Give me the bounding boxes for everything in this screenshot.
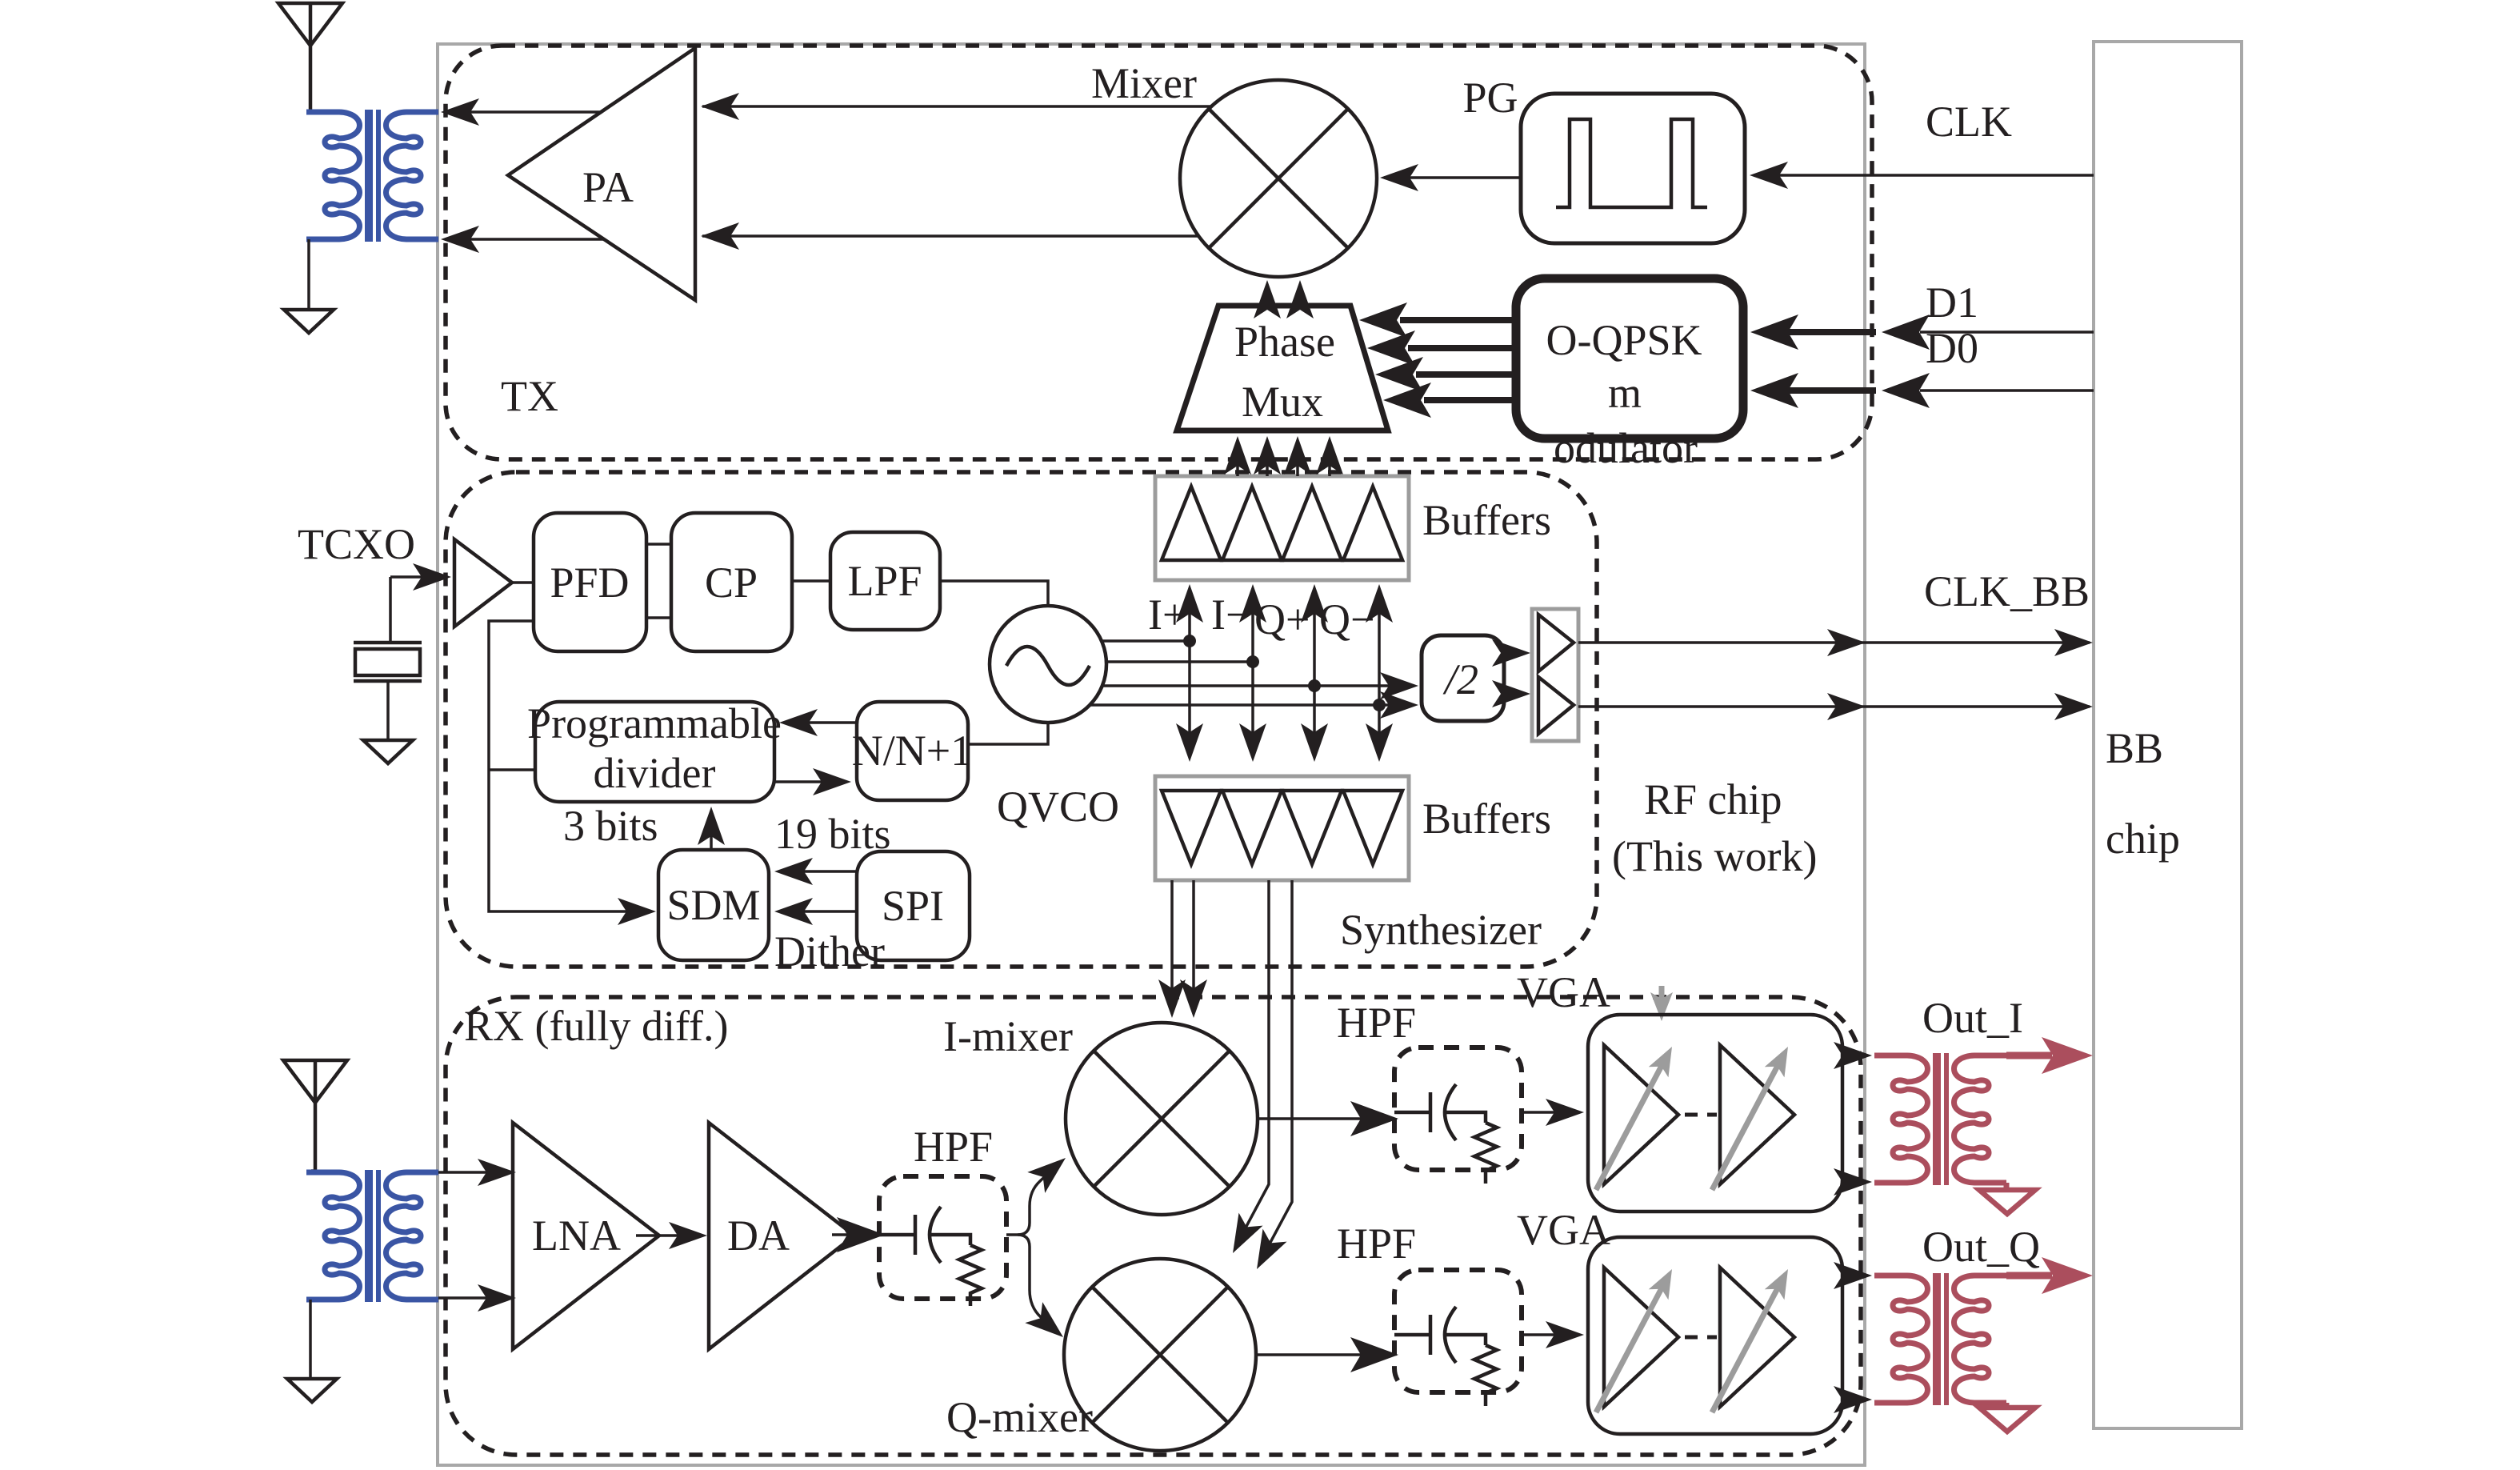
HPF3 to VGA2 wire — [1522, 1333, 1576, 1336]
CLK_BB arrowhead end 2 — [2054, 693, 2093, 720]
HPF1 resistor R1 — [959, 1245, 982, 1306]
TX ground wire — [307, 239, 310, 310]
svg-text:Mixer: Mixer — [1091, 59, 1197, 107]
Q plus arrow up — [1301, 584, 1328, 623]
top buffer triangle 1 — [1162, 487, 1221, 560]
arrowhead into TCXO buffer — [413, 563, 451, 591]
TX balun transformer — [306, 110, 438, 242]
arrowhead LO Q-mixer 1 — [1221, 1213, 1263, 1260]
Synthesizer block dashed border — [446, 472, 1597, 967]
HPF2 capacitor plate 2 — [1445, 1084, 1456, 1140]
svg-text:D1: D1 — [1926, 278, 1978, 326]
Out_Q ground wire — [2004, 1403, 2010, 1408]
VGA1 dash link — [1685, 1113, 1717, 1117]
N/N+1 divider box — [857, 702, 968, 800]
div2 output wire 1 — [1504, 651, 1524, 655]
svg-text:divider: divider — [594, 749, 716, 797]
modulator bus tick 4 — [1513, 391, 1519, 410]
arrowhead into I-mixer — [1027, 1148, 1074, 1193]
QVCO output wire I plus — [1102, 639, 1190, 643]
wire phase mux to mixer 1 — [1266, 288, 1269, 306]
svg-text:Q−: Q− — [1319, 595, 1374, 643]
svg-text:Q+: Q+ — [1254, 595, 1310, 643]
D1 arrowhead into modulator — [1750, 314, 1798, 350]
HPF3 dashed box — [1394, 1270, 1522, 1392]
top buffer triangle 2 — [1222, 487, 1282, 560]
Q-mixer output wire — [1256, 1353, 1386, 1356]
clk buffer pair box — [1532, 609, 1578, 741]
SPI to SDM wire 2 — [781, 910, 857, 913]
LO wire to I-mixer 2 — [1192, 880, 1195, 1010]
svg-text:RF chip: RF chip — [1644, 775, 1782, 823]
crystal ground wire — [386, 681, 390, 740]
svg-text:Synthesizer: Synthesizer — [1340, 906, 1542, 954]
arrowhead into mixer 2 — [1286, 280, 1314, 318]
RX block dashed border — [446, 997, 1861, 1455]
RX balun transformer — [306, 1170, 438, 1302]
I minus arrow up — [1239, 584, 1266, 623]
LNA to DA wire — [636, 1234, 701, 1237]
svg-text:Programmable: Programmable — [527, 699, 782, 747]
arrowhead into balun top — [441, 98, 479, 126]
modulator bus tick 2 — [1513, 338, 1519, 358]
LO wire to Q-mixer 2 — [1262, 880, 1292, 1259]
BB chip outline box — [2094, 42, 2242, 1428]
bottom buffer triangle 4 — [1343, 791, 1402, 864]
svg-text:HPF: HPF — [1337, 1220, 1416, 1268]
svg-text:m: m — [1608, 369, 1642, 417]
I plus arrow up — [1176, 584, 1203, 623]
svg-text:SPI: SPI — [882, 882, 944, 930]
I minus vertical line — [1251, 596, 1254, 752]
DA amplifier — [709, 1123, 854, 1349]
RX antenna-transformer wire — [311, 1169, 315, 1172]
CLK_BB wire 1 — [1578, 641, 2090, 644]
buffers to phase mux wire 1 — [1236, 447, 1239, 476]
wire PG to mixer — [1384, 176, 1521, 179]
crystal X1 top plate — [354, 641, 422, 645]
svg-text:3 bits: 3 bits — [563, 802, 658, 850]
HPF2 wire to resistor — [1446, 1112, 1486, 1123]
HPF1 input wire — [879, 1233, 915, 1237]
wire phase mux to mixer 2 — [1298, 288, 1302, 306]
I-mixer cross line 1 — [1094, 1051, 1230, 1187]
svg-text:I+: I+ — [1148, 591, 1186, 639]
HPF2 capacitor plate 1 — [1429, 1092, 1433, 1132]
svg-text:BB: BB — [2106, 724, 2163, 772]
arrowhead into Q-mixer — [1025, 1302, 1072, 1348]
modulator-to-mux bus wire 4 — [1424, 397, 1516, 403]
svg-text:Mux: Mux — [1242, 378, 1323, 426]
TX antenna-transformer wire — [306, 110, 310, 114]
arrowhead VGA2 out minus — [1834, 1386, 1872, 1413]
CLK wire from BB chip to PG — [1754, 174, 2094, 177]
CLK_BB arrowhead mid 2 — [1827, 693, 1866, 720]
arrowhead LO I-mixer 2 — [1180, 979, 1207, 1018]
svg-text:LNA: LNA — [532, 1212, 621, 1260]
HPF3 input wire — [1394, 1333, 1430, 1337]
arrowhead into NN1 — [813, 768, 851, 795]
CLK_BB arrowhead end 1 — [2054, 629, 2093, 656]
I-mixer circle — [1066, 1023, 1258, 1215]
I minus arrow down — [1239, 723, 1266, 762]
arrowhead VGA2 out plus — [1834, 1262, 1872, 1289]
junction node I minus — [1246, 655, 1259, 668]
bottom buffers box — [1155, 776, 1409, 880]
VGA1 gain arrowhead 2 — [1765, 1041, 1798, 1077]
arrowhead Q minus into div2 — [1380, 691, 1418, 719]
svg-text:(This work): (This work) — [1612, 832, 1817, 880]
arrowhead into balun bottom — [441, 226, 479, 253]
QVCO sine symbol — [1006, 647, 1090, 685]
VGA1 output wire plus — [1842, 1054, 1864, 1057]
gray gain control arrow VGA1 — [1659, 986, 1665, 1002]
svg-text:RX (fully diff.): RX (fully diff.) — [464, 1002, 728, 1050]
HPF1 output split wire down — [1018, 1235, 1051, 1327]
Programmable divider box — [535, 702, 774, 802]
HPF1 capacitor plate 1 — [914, 1215, 918, 1255]
QVCO output wire Q plus — [1102, 684, 1414, 687]
Q minus arrow up — [1366, 584, 1393, 623]
arrowhead buffers-mux 3 — [1284, 436, 1311, 475]
arrowhead into LNA minus — [478, 1284, 516, 1312]
VGA2 output wire minus — [1842, 1398, 1864, 1401]
svg-text:Dither: Dither — [774, 927, 885, 975]
modulator bus tick 1 — [1513, 310, 1519, 330]
svg-text:PG: PG — [1462, 74, 1518, 122]
LO wire to I-mixer 1 — [1170, 880, 1174, 1010]
Out_I arrowhead into BB — [2042, 1037, 2093, 1074]
gray gain arrowhead VGA1 — [1650, 992, 1673, 1021]
Q-mixer cross line 1 — [1092, 1287, 1228, 1423]
buffers to phase mux wire 2 — [1266, 447, 1269, 476]
I plus vertical line — [1188, 596, 1191, 752]
PG pulse waveform — [1556, 119, 1707, 207]
svg-text:SDM: SDM — [666, 881, 760, 929]
TX mixer cross line 1 — [1209, 109, 1348, 248]
modulator-to-mux bus wire 3 — [1416, 371, 1516, 378]
D1 wire thin from BB — [1920, 330, 2094, 334]
D0 arrowhead outer — [1882, 373, 1930, 408]
arrowhead into VGA2 — [1546, 1321, 1584, 1348]
wire PA output minus to balun — [448, 238, 604, 241]
HPF2 input wire — [1394, 1111, 1430, 1115]
svg-text:HPF: HPF — [914, 1123, 993, 1171]
arrowhead CLK into PG — [1750, 162, 1788, 189]
VGA1 amp triangle 1 — [1604, 1045, 1678, 1184]
top buffer triangle 3 — [1282, 487, 1342, 560]
svg-text:VGA: VGA — [1517, 968, 1610, 1016]
svg-text:D0: D0 — [1926, 324, 1978, 372]
HPF2 to VGA1 wire — [1522, 1111, 1576, 1114]
junction node Q minus — [1373, 699, 1386, 711]
arrowhead into SDM — [618, 898, 656, 925]
TX mixer circle — [1180, 80, 1377, 277]
TX mixer cross line 2 — [1209, 109, 1348, 248]
arrowhead into HPF2 — [1350, 1101, 1398, 1136]
TX antenna — [278, 3, 342, 114]
arrowhead div2 out 1 — [1492, 639, 1530, 667]
junction node Q plus — [1308, 679, 1321, 692]
HPF1 wire to resistor — [930, 1235, 970, 1245]
SPI to SDM wire 1 — [781, 870, 857, 873]
QVCO circle — [990, 606, 1106, 723]
VGA2 dash link — [1685, 1336, 1717, 1340]
Out_Q arrowhead into BB — [2042, 1257, 2093, 1294]
RF chip outline box — [438, 44, 1865, 1465]
svg-text:N/N+1: N/N+1 — [852, 727, 972, 775]
crystal wire down — [389, 577, 392, 643]
HPF2 dashed box — [1394, 1047, 1522, 1170]
RX ground — [287, 1379, 337, 1402]
PFD-CP wire upper — [646, 543, 671, 546]
RX ground wire — [309, 1300, 312, 1379]
Out_Q transformer — [1874, 1273, 2006, 1405]
Q plus arrow down — [1301, 723, 1328, 762]
svg-text:DA: DA — [727, 1212, 790, 1260]
Q plus vertical line — [1313, 596, 1316, 752]
PFD box — [534, 513, 646, 651]
svg-text:CLK: CLK — [1926, 98, 2012, 146]
HPF1 capacitor plate 2 — [930, 1207, 941, 1263]
svg-text:I−: I− — [1211, 591, 1250, 639]
wire PA output plus to balun — [448, 110, 602, 114]
D0 arrowhead into modulator — [1750, 373, 1798, 408]
arrowhead at PA input plus — [701, 93, 739, 120]
clk buffer triangle 2 — [1538, 677, 1574, 734]
VGA1 box — [1588, 1015, 1842, 1212]
TCXO wire to buffer — [390, 575, 445, 579]
arrowhead into VGA1 — [1546, 1099, 1584, 1126]
TCXO buffer triangle — [454, 539, 512, 627]
arrowhead into HPF1 — [837, 1217, 885, 1252]
svg-text:PA: PA — [582, 163, 634, 211]
Out_I ground wire — [2004, 1183, 2010, 1190]
junction node I plus — [1183, 635, 1196, 647]
VGA2 output wire plus — [1842, 1274, 1864, 1277]
top buffer triangle 4 — [1343, 487, 1402, 560]
RX input wire plus — [438, 1171, 507, 1174]
O-QPSK modulator box — [1516, 278, 1743, 439]
HPF3 resistor R3 — [1474, 1345, 1497, 1406]
QVCO to NN1 feedback wire — [968, 723, 1048, 744]
PA amplifier U-PA — [508, 48, 695, 300]
svg-text:Out_Q: Out_Q — [1922, 1223, 2040, 1271]
arrowhead SPI-SDM 2 — [774, 898, 813, 925]
Out_Q output wire — [2006, 1272, 2052, 1280]
I-mixer output wire — [1258, 1117, 1386, 1120]
VGA2 gain arrow 2 — [1712, 1287, 1778, 1412]
HPF1 output split wire up — [1006, 1168, 1054, 1235]
crystal ground — [363, 740, 413, 763]
PFD-CP wire lower — [646, 616, 671, 619]
HPF3 capacitor plate 2 — [1445, 1307, 1456, 1363]
svg-text:LPF: LPF — [847, 557, 922, 605]
VGA1 output wire minus — [1842, 1180, 1864, 1184]
buffers to phase mux wire 4 — [1328, 447, 1331, 476]
svg-text:TX: TX — [501, 372, 558, 420]
svg-text:Phase: Phase — [1234, 318, 1335, 366]
svg-text:/2: /2 — [1442, 655, 1478, 703]
HPF2 resistor R2 — [1474, 1123, 1497, 1184]
arrowhead bus 1 — [1359, 302, 1407, 338]
LPF box — [830, 532, 940, 630]
crystal X1 body — [355, 649, 420, 675]
div2 output wire 2 — [1504, 692, 1524, 695]
crystal X1 bottom plate — [354, 679, 422, 683]
divider to NN1 wire — [774, 780, 845, 783]
QVCO output wire Q minus — [1090, 703, 1414, 707]
Out_I output wire — [2006, 1052, 2052, 1059]
Q minus arrow down — [1366, 723, 1393, 762]
arrowhead into DA — [669, 1222, 707, 1249]
CLK_BB arrowhead mid 1 — [1827, 629, 1866, 656]
arrowhead bus 4 — [1383, 383, 1431, 418]
arrowhead into mixer 1 — [1254, 280, 1281, 318]
RX antenna — [283, 1060, 347, 1171]
VGA2 gain arrow 1 — [1596, 1287, 1662, 1412]
arrowhead into LNA plus — [478, 1159, 516, 1186]
svg-text:chip: chip — [2106, 815, 2180, 863]
Out_I ground — [1979, 1190, 2035, 1214]
HPF3 capacitor plate 1 — [1429, 1315, 1433, 1355]
LPF to QVCO wire — [940, 581, 1048, 606]
Q-mixer circle — [1064, 1259, 1256, 1451]
DA to HPF wire — [832, 1233, 877, 1236]
modulator bus tick 3 — [1513, 365, 1519, 384]
VGA1 gain arrow 1 — [1596, 1064, 1662, 1190]
VGA1 gain arrowhead 1 — [1649, 1041, 1682, 1077]
svg-text:CLK_BB: CLK_BB — [1924, 567, 2090, 615]
modulator-to-mux bus wire 2 — [1408, 345, 1516, 351]
arrowhead into programmable divider — [779, 709, 818, 736]
VGA2 gain arrowhead 2 — [1765, 1264, 1798, 1300]
svg-text:odulator: odulator — [1554, 424, 1698, 472]
Q-mixer cross line 2 — [1092, 1287, 1228, 1423]
svg-text:19 bits: 19 bits — [774, 810, 891, 858]
svg-text:Q-mixer: Q-mixer — [946, 1393, 1093, 1441]
arrowhead bus 3 — [1375, 357, 1423, 392]
arrowhead buffers-mux 1 — [1224, 436, 1251, 475]
I plus arrow down — [1176, 723, 1203, 762]
arrowhead SPI-SDM 1 — [774, 858, 813, 885]
LNA amplifier — [513, 1123, 659, 1349]
arrowhead SDM to divider — [698, 807, 725, 845]
arrowhead buffers-mux 2 — [1254, 436, 1281, 475]
div2 box — [1422, 635, 1504, 721]
VGA1 gain arrow 2 — [1712, 1064, 1778, 1190]
VGA2 gain arrowhead 1 — [1649, 1264, 1682, 1300]
arrowhead div2 out 2 — [1492, 680, 1530, 707]
svg-text:CP: CP — [705, 559, 758, 607]
CLK_BB wire 2 — [1578, 705, 2090, 708]
HPF1 dashed box — [879, 1176, 1006, 1299]
svg-text:HPF: HPF — [1337, 999, 1416, 1047]
divider feedback wire to PFD — [489, 621, 650, 911]
svg-text:Buffers: Buffers — [1422, 496, 1551, 544]
arrowhead VGA1 out minus — [1834, 1168, 1872, 1196]
D0 wire thin from BB — [1920, 389, 2094, 392]
modulator-to-mux bus wire 1 — [1400, 317, 1516, 323]
Out_Q ground — [1979, 1408, 2035, 1432]
bottom buffer triangle 2 — [1222, 791, 1282, 864]
CP box — [671, 513, 792, 651]
Out_I transformer — [1874, 1053, 2006, 1185]
D0 wire thick — [1760, 387, 1876, 394]
buffers to phase mux wire 3 — [1296, 447, 1299, 476]
arrowhead bus 2 — [1367, 330, 1415, 366]
wire mixer to PA input minus — [702, 234, 1198, 238]
arrowhead LO Q-mixer 2 — [1245, 1229, 1287, 1276]
clk buffer triangle 1 — [1538, 615, 1574, 671]
bottom buffer triangle 3 — [1282, 791, 1342, 864]
arrowhead into HPF3 — [1350, 1337, 1398, 1372]
PG pulse generator box — [1521, 94, 1745, 243]
arrowhead Q plus into div2 — [1380, 672, 1418, 699]
wire mixer to PA input plus — [702, 105, 1211, 108]
VGA2 amp triangle 1 — [1604, 1268, 1678, 1407]
TX ground — [284, 310, 334, 333]
Phase Mux trapezoid — [1177, 306, 1388, 431]
buffer to PFD wire — [512, 581, 534, 584]
I-mixer cross line 2 — [1094, 1051, 1230, 1187]
top buffers box — [1155, 476, 1409, 580]
VGA2 box — [1588, 1237, 1842, 1434]
QVCO output wire I minus — [1106, 660, 1253, 663]
D1 arrowhead outer — [1882, 314, 1930, 350]
arrowhead buffers-mux 4 — [1316, 436, 1343, 475]
VGA1 amp triangle 2 — [1720, 1045, 1794, 1184]
bottom buffer triangle 1 — [1162, 791, 1221, 864]
arrowhead at PA input minus — [701, 222, 739, 250]
arrowhead VGA1 out plus — [1834, 1042, 1872, 1069]
SDM box — [658, 850, 769, 960]
svg-text:TCXO: TCXO — [298, 520, 415, 568]
svg-text:Out_I: Out_I — [1922, 994, 2023, 1042]
RX input wire minus — [438, 1296, 507, 1300]
HPF3 wire to resistor — [1446, 1335, 1486, 1345]
SDM to divider wire — [710, 813, 713, 850]
D1 wire thick — [1760, 329, 1876, 335]
svg-text:QVCO: QVCO — [997, 783, 1119, 831]
LO wire to Q-mixer 1 — [1238, 880, 1269, 1243]
svg-text:PFD: PFD — [550, 559, 629, 607]
arrowhead LO I-mixer 1 — [1158, 979, 1186, 1018]
arrowhead PG-to-mixer — [1380, 164, 1418, 191]
svg-text:Buffers: Buffers — [1422, 795, 1551, 843]
VGA2 amp triangle 2 — [1720, 1268, 1794, 1407]
Q minus vertical line — [1378, 596, 1381, 752]
svg-text:I-mixer: I-mixer — [943, 1012, 1073, 1060]
NN1 to programmable divider wire — [786, 721, 857, 724]
TX block dashed border — [446, 46, 1872, 459]
divider feedback branch wire — [489, 768, 535, 771]
SPI box — [857, 851, 970, 960]
CP-LPF wire — [792, 579, 830, 583]
svg-text:O-QPSK: O-QPSK — [1546, 316, 1702, 364]
